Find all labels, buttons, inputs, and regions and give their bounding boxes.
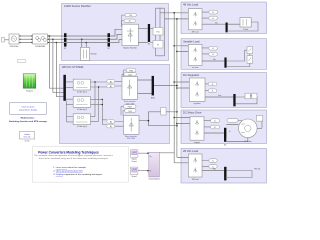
- node taps to aux block: [81, 38, 87, 43]
- svg-text:-K-: -K-: [212, 167, 215, 169]
- svg-text:chopper: chopper: [194, 141, 201, 144]
- busbar B3: [148, 24, 150, 46]
- svg-text:Signals: Signals: [132, 159, 137, 161]
- 28Vdc Load: converter: [188, 154, 202, 181]
- pulse stadium 1b: [122, 70, 136, 77]
- svg-text:PQ: PQ: [157, 32, 160, 34]
- tag g1: [107, 80, 115, 84]
- modeling method label: [9, 117, 48, 123]
- gain K7: [211, 119, 220, 123]
- scope block 2: [131, 167, 138, 178]
- gain K5: [208, 82, 217, 86]
- gain K4: [209, 52, 218, 56]
- svg-text:LC filter leg 1: LC filter leg 1: [77, 91, 87, 94]
- rail net C: [102, 99, 107, 124]
- DC bus vertical +: [173, 13, 175, 163]
- wires tags to converter 1: [115, 81, 124, 126]
- svg-text:regulator: regulator: [194, 102, 201, 105]
- svg-text:12 kVA 208V: 12 kVA 208V: [35, 45, 46, 48]
- wire bus taps R4: [174, 118, 190, 124]
- 28V system: input busbar: [63, 75, 66, 101]
- wire converter2 output: [139, 112, 177, 126]
- node control inputs: [147, 153, 148, 172]
- tag h1: [107, 120, 115, 124]
- svg-text:2. Open parameterization GUI: 2. Open parameterization GUI: [53, 170, 83, 173]
- DC Motor Drive: converter: [190, 117, 204, 144]
- svg-text:Bus: Bus: [224, 145, 227, 147]
- converter 1 (28V): [122, 77, 138, 106]
- Variable Load: converter: [188, 45, 202, 70]
- svg-text:100: 100: [129, 15, 132, 17]
- svg-text:This example shows the operati: This example shows the operation of seve…: [34, 154, 114, 157]
- gain K9: [209, 159, 217, 163]
- svg-text:1. Learn more about this examp: 1. Learn more about this example: [53, 166, 86, 169]
- svg-text:-K-: -K-: [212, 161, 215, 163]
- svg-text:TP5 Vdc: TP5 Vdc: [254, 169, 261, 171]
- svg-text:DC motor: DC motor: [244, 140, 252, 143]
- svg-text:3. Display comparison of four: 3. Display comparison of four modeling t…: [53, 173, 103, 176]
- svg-text:PWM: PWM: [129, 70, 134, 72]
- ground stub: [2, 38, 10, 42]
- wire busbar to LC blocks: [66, 82, 73, 122]
- svg-text:-K-: -K-: [212, 12, 215, 14]
- svg-text:B1: B1: [64, 48, 66, 50]
- svg-text:Pls: Pls: [149, 171, 151, 173]
- svg-text:Modelisation :: Modelisation :: [21, 117, 36, 120]
- measurement rails: [150, 8, 164, 56]
- wire bus taps R3: [174, 82, 189, 88]
- 48Vdc Load: converter: [188, 9, 202, 34]
- svg-text:120V 60Hz: 120V 60Hz: [10, 46, 19, 48]
- node taps on phase wires: [49, 35, 58, 43]
- wire load return loop: [227, 22, 258, 31]
- svg-text:1500: 1500: [128, 111, 132, 113]
- svg-text:-K-: -K-: [211, 91, 214, 93]
- DC Regulator: converter: [189, 78, 205, 105]
- busbar 48V: [226, 23, 228, 33]
- svg-text:Ts info: Ts info: [25, 141, 30, 143]
- wire conv to busbar 28V load: [202, 170, 224, 172]
- info box: [19, 132, 34, 143]
- wire bus taps R1: [174, 46, 188, 52]
- node row1 bus: [176, 85, 178, 87]
- svg-text:Scopes: Scopes: [132, 161, 138, 163]
- pulse tag 1: [121, 13, 136, 26]
- wire bus into var conv: [202, 48, 209, 54]
- panel "28 Vdc Load": [181, 148, 267, 183]
- DC bus vertical -: [176, 19, 178, 158]
- svg-text:RC filter: RC filter: [91, 53, 98, 56]
- wire conv to busbar 48V: [202, 23, 226, 25]
- RC box 1: [245, 93, 250, 99]
- gain K8: [211, 125, 220, 129]
- title box: [32, 147, 128, 183]
- LC filter block 3: [73, 114, 90, 128]
- svg-text:Ia: Ia: [229, 131, 230, 133]
- wires filters to rails: [91, 82, 107, 121]
- busbar motor: [224, 128, 226, 142]
- wire rectifier output to busbar B3: [138, 28, 147, 42]
- wire busbar 28V load out: [225, 171, 252, 178]
- svg-text:time info: time info: [24, 135, 31, 138]
- bus junction nodes: [173, 12, 177, 126]
- svg-text:-K-: -K-: [212, 18, 215, 20]
- scopes block (green): [23, 74, 36, 93]
- pulse tag 2: [124, 19, 135, 23]
- load block 48V: [240, 18, 251, 32]
- rail net B: [98, 87, 100, 121]
- svg-text:var conv: var conv: [192, 66, 199, 69]
- svg-text:Thyristor Rectifier: Thyristor Rectifier: [123, 46, 137, 49]
- svg-text:Click to open: Click to open: [22, 106, 35, 109]
- rail junction nodes: [94, 81, 103, 105]
- wire busbar B2 to rectifier: [110, 29, 122, 42]
- svg-text:-K-: -K-: [212, 54, 215, 56]
- wire scopes to control system: [138, 153, 174, 171]
- pulse stadium 2a: [124, 105, 137, 109]
- wire bus into 28V load conv: [202, 161, 209, 167]
- panel "DC Motor Drive": [181, 110, 267, 144]
- busbar B1: [64, 33, 67, 46]
- wire bus into regulator: [205, 84, 208, 91]
- svg-text:that can be simulated using on: that can be simulated using one of four …: [39, 157, 109, 160]
- busbar B2: [108, 33, 111, 46]
- svg-text:B2: B2: [148, 44, 150, 46]
- wire drop to 28V system (3 phases): [50, 36, 64, 97]
- svg-text:Scopes: Scopes: [26, 91, 33, 93]
- svg-text:48V conv: 48V conv: [192, 31, 199, 33]
- svg-text:Switching function and SPS ave: Switching function and SPS average: [9, 120, 48, 123]
- wire busbar var to switch blocks: [227, 50, 250, 66]
- svg-text:DC Motor Drive: DC Motor Drive: [183, 111, 202, 115]
- rectifier U1: [122, 24, 138, 49]
- tag box small: [17, 60, 25, 63]
- RC box 2: [252, 93, 257, 99]
- panel "Variable Load": [181, 39, 267, 70]
- gain K6: [208, 89, 217, 93]
- tag g2: [107, 84, 115, 88]
- busbar 28V load: [224, 167, 226, 181]
- pulse stadium 2b: [121, 106, 136, 115]
- svg-text:Control System: Control System: [148, 178, 160, 181]
- transformer T1: [33, 34, 48, 48]
- port arrows chain: [20, 35, 49, 43]
- svg-text:DC Regulator: DC Regulator: [183, 73, 199, 77]
- svg-text:parameters dialog: parameters dialog: [19, 109, 37, 112]
- switch block 2: [247, 56, 253, 64]
- gain K3: [209, 46, 218, 50]
- panel "48 Vdc Load": [181, 2, 267, 34]
- busbar 28V row1: [151, 76, 155, 100]
- wire DC output to bus: [160, 13, 188, 19]
- node conv2: [148, 120, 150, 122]
- busbar var: [224, 58, 226, 68]
- wire bus into 48V conv: [202, 12, 209, 18]
- wire chopper to motor: [204, 125, 248, 142]
- wire regulator to busbar reg: [205, 96, 233, 98]
- rail net A: [94, 82, 96, 117]
- svg-text:-K-: -K-: [214, 127, 217, 129]
- svg-text:-K-: -K-: [211, 84, 214, 86]
- goto tag motor: [227, 119, 242, 125]
- gain K10: [209, 165, 217, 169]
- svg-text:28V DC SYSTEM: 28V DC SYSTEM: [62, 65, 84, 69]
- switch block 1: [247, 47, 253, 54]
- gain K1: [209, 10, 218, 14]
- wire bus taps R5: [174, 157, 188, 162]
- meter block 1: [153, 28, 163, 36]
- parameters dialog box: [10, 103, 47, 115]
- tag h2: [107, 125, 115, 129]
- panel "12kW Source Rectifier": [62, 4, 169, 61]
- control system block: [148, 152, 160, 180]
- svg-text:48 Vdc Load: 48 Vdc Load: [183, 3, 199, 7]
- svg-text:PWM: PWM: [128, 107, 133, 109]
- svg-text:28V / 200V: 28V / 200V: [127, 138, 136, 140]
- svg-text:-K-: -K-: [212, 48, 215, 50]
- svg-text:28V load: 28V load: [192, 179, 199, 181]
- scope block 1: [131, 150, 138, 163]
- wire source to transformer (3 phases): [19, 36, 33, 43]
- svg-text:Power Converters Modeling Tech: Power Converters Modeling Techniques: [38, 150, 99, 154]
- LC filter block 2: [73, 97, 90, 111]
- meter block 2: [153, 41, 163, 49]
- converter 2 (28V): [124, 116, 140, 141]
- svg-text:B28a: B28a: [151, 98, 155, 100]
- meas box motor: [256, 115, 263, 128]
- wire transformer to rectifier panel: [47, 36, 64, 43]
- gain K2: [209, 16, 218, 20]
- svg-text:B2: B2: [108, 48, 110, 50]
- svg-text:Sig: Sig: [149, 156, 151, 158]
- svg-text:ab: ab: [129, 21, 131, 23]
- three-phase source: [9, 34, 19, 48]
- wire conv to busbar var: [202, 60, 224, 62]
- wire bus into chopper: [204, 120, 211, 127]
- svg-text:1500: 1500: [128, 74, 132, 76]
- motor M1: [239, 119, 258, 143]
- svg-text:Scope2: Scope2: [131, 176, 137, 178]
- wire row1 to DC bus: [154, 85, 177, 87]
- aux load block: [81, 39, 98, 60]
- wire busbar to load 48V: [228, 23, 240, 25]
- svg-text:LC filter leg 2: LC filter leg 2: [77, 108, 87, 111]
- svg-text:28 Vdc Load: 28 Vdc Load: [183, 149, 199, 153]
- panel "28V DC SYSTEM": [60, 64, 170, 143]
- wire converter1 to busbar: [138, 80, 152, 94]
- panel "DC Regulator": [181, 73, 267, 108]
- busbar reg: [233, 94, 235, 106]
- pulse stadium 1a: [126, 68, 136, 72]
- svg-text:12kW Source Rectifier: 12kW Source Rectifier: [64, 4, 91, 8]
- sensor box row2: [161, 108, 166, 116]
- svg-text:-K-: -K-: [214, 121, 217, 123]
- svg-text:Variable Load: Variable Load: [183, 39, 200, 43]
- LC filter block 1: [73, 79, 90, 93]
- svg-text:LC filter leg 3: LC filter leg 3: [77, 125, 87, 128]
- wire busbar reg to RC: [236, 96, 257, 104]
- wire busbar B1 to busbar B2: [67, 36, 108, 43]
